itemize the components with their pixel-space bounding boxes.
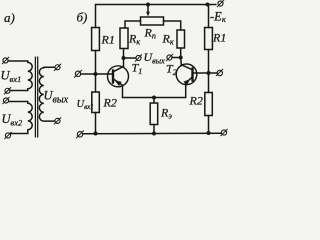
terminal Uвых top bbox=[54, 64, 61, 71]
wire bbox=[180, 48, 182, 58]
wire bbox=[153, 125, 155, 134]
node bottom right branch bbox=[207, 131, 211, 135]
wire base lead T2 bbox=[193, 72, 209, 74]
wire base lead T1 bbox=[96, 73, 114, 75]
wire bbox=[208, 116, 210, 134]
svg-text:R1: R1 bbox=[212, 31, 226, 45]
terminal Uвх2 bottom bbox=[5, 132, 12, 139]
transformer primary winding W1 bbox=[8, 61, 32, 91]
wire top rail bbox=[96, 4, 217, 6]
resistor Rэ bbox=[150, 103, 158, 125]
terminal bottom left bbox=[76, 131, 83, 138]
node base T2 bbox=[207, 71, 211, 75]
transformer secondary winding bbox=[39, 67, 54, 121]
wire right branch vertical bbox=[208, 5, 210, 28]
wire left branch vertical bbox=[95, 5, 97, 28]
wire bbox=[123, 49, 125, 59]
terminal -Eк bbox=[217, 0, 224, 7]
transistor T2 bbox=[176, 58, 197, 98]
resistor Rк left bbox=[120, 28, 128, 49]
wire input to base node bbox=[81, 73, 96, 75]
transistor T1 bbox=[108, 58, 129, 98]
terminal Uвх1 top bbox=[2, 57, 9, 64]
wire output terminal right to collector node bbox=[172, 57, 181, 59]
node bottom left branch bbox=[94, 132, 98, 136]
wire bbox=[153, 98, 155, 104]
transformer core bbox=[34, 57, 36, 137]
svg-text:а): а) bbox=[4, 10, 15, 25]
terminal input б left bbox=[74, 70, 81, 77]
terminal bottom right bbox=[221, 129, 228, 136]
resistor R1 right bbox=[205, 28, 213, 50]
node top right bbox=[206, 3, 210, 7]
wire emitter link bbox=[123, 97, 186, 99]
resistor R2 left bbox=[92, 92, 100, 113]
terminal Uвых bottom bbox=[54, 118, 61, 125]
svg-text:R1: R1 bbox=[101, 33, 115, 47]
node wiper junction bbox=[146, 3, 150, 7]
resistor Rк right bbox=[177, 30, 185, 48]
terminal Uвых right bbox=[166, 54, 173, 61]
wire elbow Rп left to Rк left bbox=[125, 21, 141, 28]
wire base node to input terminal right bbox=[209, 72, 218, 74]
wire bbox=[95, 113, 97, 134]
node collector T2 bbox=[179, 56, 183, 60]
transformer primary winding W2 bbox=[9, 102, 33, 134]
node Rэ top bbox=[152, 96, 156, 100]
potentiometer Rп wiper arrow bbox=[146, 5, 150, 17]
svg-text:R2: R2 bbox=[103, 96, 117, 110]
svg-text:R2: R2 bbox=[189, 94, 203, 108]
resistor R1 left bbox=[92, 28, 100, 51]
wire elbow Rп right to Rк right bbox=[164, 21, 181, 30]
node Rэ bottom bbox=[152, 132, 156, 136]
wire bottom rail bbox=[83, 132, 221, 135]
svg-text:б): б) bbox=[77, 10, 88, 25]
terminal Uвых left bbox=[135, 55, 142, 62]
node base T1 bbox=[94, 72, 98, 76]
terminal Uвх2 top bbox=[3, 97, 10, 104]
terminal input б right bbox=[216, 69, 223, 76]
terminal Uвх1 bottom bbox=[4, 88, 11, 95]
node collector T1 bbox=[122, 56, 126, 60]
wire collector node to output terminal left bbox=[124, 57, 137, 59]
resistor R2 right bbox=[205, 93, 213, 116]
potentiometer Rп bbox=[141, 17, 164, 25]
wire bbox=[208, 50, 210, 93]
wire bbox=[95, 51, 97, 93]
